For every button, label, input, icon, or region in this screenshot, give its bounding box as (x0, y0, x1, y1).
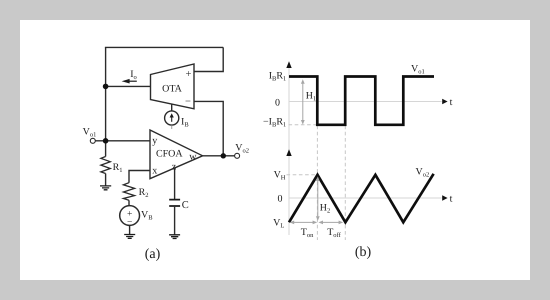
ground (R1) (100, 186, 111, 190)
svg-text:(a): (a) (145, 247, 161, 262)
dashed guide x=Ton (316, 126, 318, 240)
wire OTA output (106, 85, 151, 87)
dashed guide VH level (287, 174, 317, 176)
voltage source VB (120, 206, 154, 235)
measure arrow H1 (301, 79, 316, 124)
ground (C) (169, 235, 180, 239)
chart y-axis (shared vertical) (286, 61, 291, 235)
wire x input (129, 171, 150, 183)
svg-text:0: 0 (278, 193, 283, 204)
label 0 (chart 1) (275, 98, 280, 109)
ground (VB) (124, 235, 135, 239)
label Vo2 (chart 2) (416, 166, 430, 178)
terminal Vo1 (83, 127, 97, 144)
terminal Vo2 (235, 143, 249, 159)
current source IB (165, 104, 190, 130)
label 0 (chart 2) (278, 193, 283, 204)
op-amp OTA body (151, 64, 195, 109)
waveform Vo1 square wave (289, 77, 434, 125)
chart 1 x-axis (289, 97, 453, 108)
wire plus-input riser (194, 47, 223, 71)
capacitor C (169, 200, 189, 235)
chart 2 x-axis (289, 193, 453, 204)
svg-text:CFOA: CFOA (156, 149, 183, 160)
svg-text:+: + (186, 69, 192, 80)
svg-text:−: − (185, 97, 191, 108)
wire minus-input to Vo2 (194, 101, 223, 155)
wire z terminal (174, 168, 176, 199)
wire left vertical bus (105, 47, 107, 156)
wire top feedback (105, 46, 223, 48)
svg-text:y: y (152, 135, 157, 146)
dashed guide x=Ton+Toff (344, 126, 346, 240)
svg-text:t: t (450, 97, 453, 108)
resistor R2 (123, 183, 148, 206)
op-amp CFOA body (150, 130, 203, 179)
resistor R1 (101, 157, 123, 186)
current arrow Io (122, 69, 137, 83)
caption (b) (355, 245, 372, 260)
node A (OTA output node) (103, 84, 109, 90)
measure arrow H2 (316, 176, 330, 220)
wire w output (203, 155, 235, 157)
svg-text:x: x (152, 165, 157, 176)
svg-text:t: t (450, 193, 453, 204)
measure arrow Ton (290, 221, 318, 240)
label Vo1 (chart 1) (411, 63, 425, 75)
node Vo1 (103, 138, 109, 144)
waveform Vo2 triangle wave (289, 174, 434, 223)
label VL (273, 217, 284, 229)
dashed guide -IBR1 level (289, 124, 317, 126)
svg-text:0: 0 (275, 98, 280, 109)
wire Vo1 to y input (95, 140, 150, 142)
svg-text:w: w (189, 151, 197, 162)
node Vo2 (221, 153, 226, 158)
label VH (274, 169, 286, 181)
caption (a) (145, 247, 161, 262)
svg-text:(b): (b) (355, 245, 372, 260)
label -IBR1 (263, 117, 286, 129)
label IBR1 (269, 70, 287, 82)
measure arrow Toff (318, 221, 343, 240)
svg-text:OTA: OTA (162, 84, 183, 95)
svg-text:C: C (182, 200, 189, 211)
